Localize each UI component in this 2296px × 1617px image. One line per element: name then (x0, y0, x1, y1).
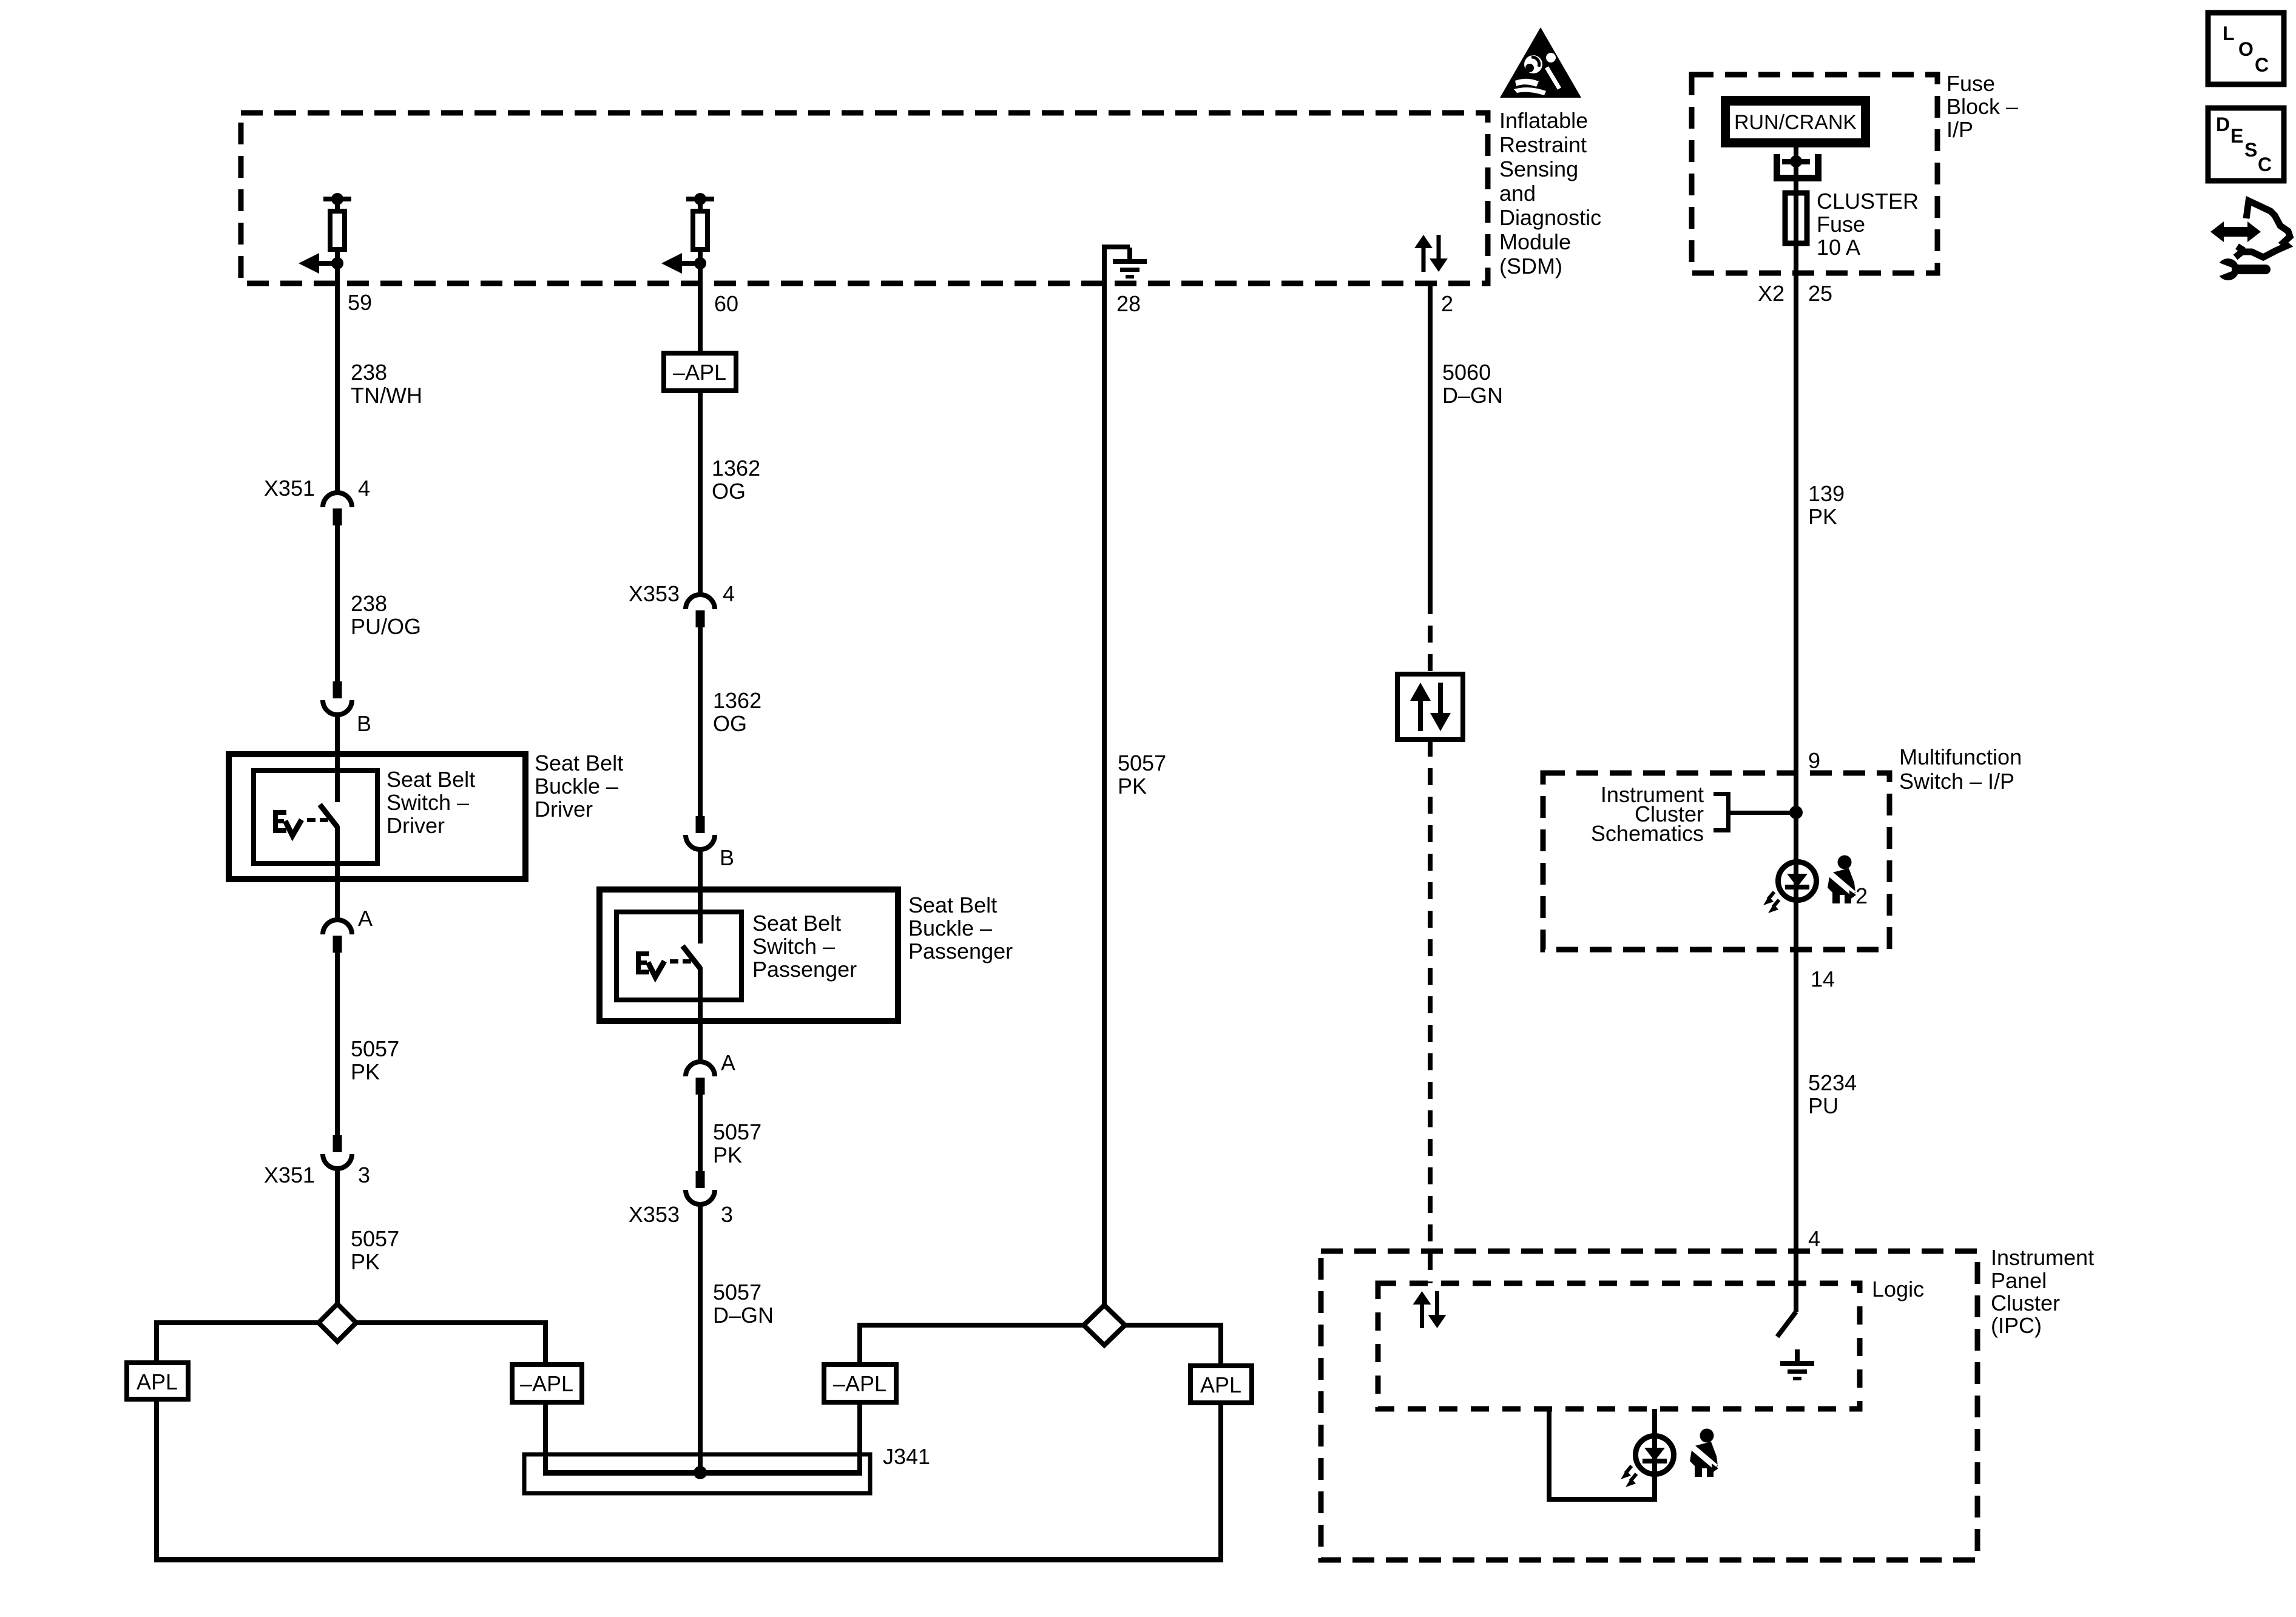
svg-text:139: 139 (1808, 481, 1845, 506)
svg-text:28: 28 (1116, 291, 1141, 316)
svg-text:5060: 5060 (1442, 360, 1491, 385)
svg-text:Driver: Driver (535, 797, 593, 822)
svg-text:X2: X2 (1758, 281, 1784, 306)
svg-text:PK: PK (1118, 774, 1147, 798)
svg-text:Schematics: Schematics (1591, 821, 1704, 846)
serial data arrows in Logic box (1413, 1291, 1447, 1328)
wire 5057 PK pin 28 down to diamond S2 (1102, 283, 1107, 1308)
RUN/CRANK voltage box (1721, 96, 1870, 147)
svg-text:Passenger: Passenger (752, 957, 857, 982)
svg-text:APL: APL (1200, 1372, 1241, 1397)
switch blade driver (open) (320, 805, 337, 827)
splice diamond S1 (319, 1304, 356, 1342)
wire APL right to bottom rail (1218, 1403, 1223, 1562)
fuse internal wire (1794, 191, 1798, 246)
wire -APL down into J341 (543, 1402, 548, 1475)
wire diamond right to -APL drop (356, 1320, 548, 1325)
svg-text:A: A (721, 1050, 735, 1075)
fuse holder connector cup (1774, 154, 1822, 181)
svg-text:PK: PK (351, 1249, 380, 1274)
Seat Belt Switch - Passenger inner box (616, 912, 741, 1000)
wire 1362 OG -APL to X353-4 (698, 391, 703, 595)
svg-text:OG: OG (712, 479, 746, 504)
svg-text:Buckle –: Buckle – (535, 774, 618, 798)
wire drop to -APL first (543, 1320, 548, 1365)
svg-text:Fuse: Fuse (1947, 71, 1995, 96)
Seat Belt Switch - Passenger label (752, 911, 857, 982)
svg-text:3: 3 (358, 1163, 370, 1187)
svg-text:3: 3 (721, 1202, 733, 1227)
wire -APL second down to J341 bar (857, 1402, 862, 1474)
-APL box second (824, 1365, 896, 1402)
svg-text:Switch –: Switch – (387, 790, 469, 815)
Seat Belt Buckle - Passenger label (908, 893, 1013, 964)
wire loop bottom (1547, 1497, 1657, 1502)
svg-text:and: and (1499, 181, 1536, 206)
wire B to passenger switch contact (698, 848, 703, 944)
svg-text:Block –: Block – (1947, 94, 2018, 119)
svg-text:Seat Belt: Seat Belt (535, 751, 623, 775)
LED indicator lamp (fasten belt) in MFS (1763, 862, 1817, 914)
svg-text:Seat Belt: Seat Belt (387, 767, 475, 792)
svg-text:Panel: Panel (1991, 1268, 2047, 1293)
Fuse Block - I/P label (1947, 71, 2018, 142)
serial data arrows in box (1410, 683, 1451, 731)
wire 238 TN/WH pin59 to X351-4 (335, 263, 340, 493)
svg-text:APL: APL (137, 1369, 178, 1394)
svg-text:5057: 5057 (351, 1226, 399, 1251)
svg-text:60: 60 (714, 291, 738, 316)
Seat Belt Switch - Driver inner box (254, 771, 377, 863)
svg-text:Logic: Logic (1872, 1277, 1924, 1301)
svg-text:Sensing: Sensing (1499, 157, 1578, 181)
svg-text:Switch – I/P: Switch – I/P (1899, 769, 2014, 794)
SDM module dashed box (Inflatable Restraint Sensing and Diagnostic Module) (241, 113, 1488, 283)
serial data arrows inside SDM (pin 2) (1414, 235, 1448, 272)
connector X353 pin 3 (686, 1171, 715, 1204)
Instrument Panel Cluster dashed box (1321, 1251, 1977, 1560)
svg-text:14: 14 (1811, 967, 1835, 991)
svg-text:E: E (2230, 125, 2243, 147)
warning triangle icon (1500, 27, 1581, 98)
APL box left (127, 1363, 188, 1399)
wire dashed segment to serial data box (1428, 597, 1433, 674)
svg-text:4: 4 (1808, 1226, 1820, 1251)
svg-text:9: 9 (1808, 748, 1820, 773)
wire 139 PK fuse to MFS pin 9 (1794, 246, 1798, 773)
SDM label text (1499, 108, 1601, 279)
svg-text:Seat Belt: Seat Belt (752, 911, 841, 936)
seat belt telltale icon IPC (1688, 1429, 1718, 1477)
ground symbol in IPC (1780, 1349, 1814, 1380)
splice pack J341 outer box (524, 1454, 870, 1493)
switch blade passenger (open) (683, 946, 700, 968)
CLUSTER fuse element (1785, 193, 1807, 243)
CLUSTER Fuse 10A label (1817, 189, 1919, 260)
connector A driver buckle (323, 920, 352, 953)
Instrument Cluster Schematics reference label (1591, 782, 1704, 846)
wire left drop down to APL (154, 1320, 159, 1363)
svg-text:B: B (720, 845, 734, 870)
wire B to switch contact (335, 714, 340, 802)
svg-text:59: 59 (348, 290, 372, 315)
wire 5057 D-GN X353-3 down to J341 (698, 1203, 703, 1473)
wire 238 PU/OG X351-4 to buckle B (335, 524, 340, 681)
svg-text:PK: PK (713, 1143, 742, 1167)
wire from driver switch down to A (335, 826, 340, 921)
DESC reference box (2208, 108, 2284, 181)
wire from passenger switch down to A (698, 967, 703, 1063)
svg-text:1362: 1362 (713, 688, 761, 713)
svg-text:Driver: Driver (387, 813, 445, 838)
wire diamond S2 to APL right drop (1123, 1323, 1221, 1328)
reference bracket (1714, 792, 1796, 832)
Seat Belt Switch - Driver label (387, 767, 475, 838)
svg-text:(SDM): (SDM) (1499, 254, 1562, 279)
svg-text:5234: 5234 (1808, 1070, 1857, 1095)
svg-text:RUN/CRANK: RUN/CRANK (1734, 111, 1857, 134)
svg-text:–APL: –APL (520, 1371, 573, 1396)
serial data box with arrows (1397, 674, 1463, 740)
wire horizontal run to diamond S2 (857, 1323, 1087, 1328)
svg-text:Seat Belt: Seat Belt (908, 893, 997, 917)
wire 5057 PK A to X353-3 (698, 1093, 703, 1172)
svg-text:2: 2 (1855, 883, 1868, 908)
svg-text:D–GN: D–GN (1442, 383, 1503, 408)
svg-text:PU: PU (1808, 1093, 1838, 1118)
svg-text:CLUSTER: CLUSTER (1817, 189, 1919, 214)
Fuse Block dashed box (1692, 75, 1937, 273)
-APL box first (512, 1365, 582, 1402)
Seat Belt Buckle - Driver outer box (229, 754, 525, 879)
svg-text:1362: 1362 (712, 456, 760, 481)
wire 5057 PK A to X351-3 (335, 951, 340, 1135)
svg-text:Fuse: Fuse (1817, 212, 1865, 237)
svg-text:S: S (2244, 139, 2257, 161)
switch blade in IPC (logic driver) (1777, 1312, 1796, 1337)
seat belt telltale icon (1826, 856, 1856, 904)
svg-text:O: O (2238, 38, 2254, 60)
connector X353 pin 4 (686, 595, 715, 627)
svg-text:X353: X353 (629, 581, 680, 606)
seat belt switch symbol driver (buckle icon, linkage dashes) (273, 810, 328, 836)
svg-text:25: 25 (1808, 281, 1832, 306)
svg-text:Diagnostic: Diagnostic (1499, 205, 1601, 230)
svg-text:X353: X353 (629, 1202, 680, 1227)
svg-text:OG: OG (713, 711, 747, 736)
wire logic to LED loop left branch (1547, 1409, 1551, 1502)
wire through MFS to IPC pin 4 (1794, 773, 1798, 1312)
svg-text:B: B (357, 711, 371, 736)
Multifunction Switch dashed box (1543, 773, 1889, 950)
svg-text:Inflatable: Inflatable (1499, 108, 1588, 133)
svg-text:–APL: –APL (833, 1371, 886, 1396)
wire APL to bottom rail (154, 1399, 159, 1562)
svg-text:5057: 5057 (713, 1119, 761, 1144)
svg-text:4: 4 (358, 476, 370, 501)
svg-text:238: 238 (351, 591, 387, 616)
wire 1362 OG pin60 to -APL symbol (698, 263, 703, 353)
svg-text:I/P: I/P (1947, 117, 1973, 142)
svg-text:X351: X351 (264, 476, 315, 501)
svg-text:Cluster: Cluster (1991, 1291, 2060, 1315)
connector B passenger buckle (686, 816, 715, 849)
wire 1362 OG X353-4 to buckle B (698, 626, 703, 816)
splice bus bar J341 (543, 1470, 862, 1476)
svg-text:Module: Module (1499, 229, 1571, 254)
svg-text:–APL: –APL (673, 360, 726, 385)
-APL wire symbol box column2 (664, 353, 736, 391)
wire drop to APL right (1218, 1323, 1223, 1366)
LOC reference box (2208, 13, 2284, 84)
Instrument Panel Cluster label (1991, 1245, 2094, 1338)
svg-text:Buckle –: Buckle – (908, 916, 992, 940)
Multifunction Switch - I/P label (1899, 744, 2022, 794)
svg-text:Instrument: Instrument (1991, 1245, 2094, 1270)
Logic dashed box (1378, 1283, 1860, 1409)
junction dot on J341 bar (694, 1466, 707, 1479)
Seat Belt Buckle - Driver label (535, 751, 623, 822)
connector B driver buckle (323, 681, 352, 715)
svg-text:D–GN: D–GN (713, 1303, 774, 1328)
seat belt switch symbol passenger (636, 951, 691, 977)
svg-text:PK: PK (351, 1059, 380, 1084)
svg-text:TN/WH: TN/WH (351, 383, 422, 408)
svg-text:Restraint: Restraint (1499, 132, 1587, 157)
wire -APL second up to horizontal run (857, 1323, 862, 1365)
wire LED branch vertical (1652, 1409, 1657, 1502)
svg-text:C: C (2255, 54, 2269, 76)
svg-text:A: A (358, 906, 373, 931)
junction dot node (1789, 806, 1803, 819)
APL box right (1190, 1366, 1252, 1403)
wire RUN/CRANK to fuse (1794, 147, 1798, 191)
connector X351 pin 3 (323, 1135, 352, 1169)
svg-text:D: D (2216, 113, 2230, 135)
svg-text:5057: 5057 (351, 1036, 399, 1061)
svg-text:Multifunction: Multifunction (1899, 744, 2022, 769)
wire 5057 PK X351-3 to splice diamond (335, 1167, 340, 1304)
svg-text:(IPC): (IPC) (1991, 1313, 2042, 1338)
svg-text:10 A: 10 A (1817, 235, 1860, 260)
svg-text:X351: X351 (264, 1163, 315, 1187)
svg-text:4: 4 (723, 581, 735, 606)
connector A passenger buckle (686, 1062, 715, 1095)
LED indicator lamp (fasten belt) in IPC (1621, 1436, 1674, 1488)
svg-text:C: C (2258, 154, 2272, 175)
wire diamond to left APL drop (157, 1320, 319, 1325)
splice diamond S2 (1084, 1305, 1125, 1345)
svg-text:L: L (2223, 22, 2235, 44)
connector X351 pin 4 (323, 493, 352, 525)
svg-text:PU/OG: PU/OG (351, 614, 421, 639)
svg-text:5057: 5057 (713, 1280, 761, 1305)
dashed wire serial box to IPC logic (1428, 740, 1433, 1283)
svg-text:PK: PK (1808, 504, 1837, 529)
Seat Belt Buckle - Passenger outer box (599, 890, 898, 1021)
svg-text:5057: 5057 (1118, 751, 1166, 775)
squib resistor pin 59 (driver pretensioner feed) (299, 193, 351, 274)
bottom rail wire (154, 1557, 1223, 1562)
service hand-wrench icon (2210, 201, 2290, 280)
svg-text:J341: J341 (883, 1444, 930, 1469)
wire 5060 D-GN pin 2 solid segment (1428, 283, 1433, 597)
squib resistor pin 60 (passenger pretensioner feed) (661, 193, 714, 274)
svg-text:2: 2 (1441, 291, 1453, 316)
svg-text:Switch –: Switch – (752, 934, 835, 959)
svg-text:Passenger: Passenger (908, 939, 1013, 964)
svg-text:238: 238 (351, 360, 387, 385)
ground symbol inside SDM (pin 28) (1102, 245, 1147, 283)
